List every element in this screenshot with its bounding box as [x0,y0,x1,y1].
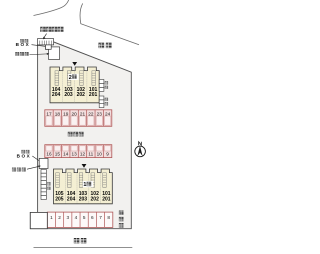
svg-text:5: 5 [83,215,86,220]
svg-text:24: 24 [105,111,111,116]
svg-text:18: 18 [55,111,61,116]
shed structure bottom-left [30,212,47,228]
svg-text:6: 6 [91,215,94,220]
svg-text:20: 20 [72,111,78,116]
svg-text:1: 1 [83,182,86,188]
label 宅配 (bldg2) [20,39,28,42]
svg-text:16: 16 [46,152,52,157]
storage 物置 bldg2 upper [99,80,108,92]
property boundary parcel [30,42,131,229]
svg-text:201: 201 [89,92,98,98]
svg-text:13: 13 [72,152,78,157]
svg-text:BOX: BOX [17,154,32,159]
svg-text:202: 202 [91,196,100,202]
building 1-tou [54,169,113,204]
arrow to bicycle shed (bldg2) [30,53,50,55]
svg-text:21: 21 [80,111,86,116]
svg-text:22: 22 [88,111,94,116]
bicycle shed structure (bldg2) [49,47,60,60]
svg-text:205: 205 [55,196,64,202]
svg-text:11: 11 [88,152,93,157]
svg-text:10: 10 [97,152,103,157]
svg-text:3: 3 [66,215,69,220]
road line bottom [34,247,133,249]
label 駐車場 middle [68,132,84,137]
label 宅配 (bldg1) [21,150,29,153]
svg-text:201: 201 [102,196,111,202]
svg-text:17: 17 [46,111,52,116]
arrow to garbage box [43,34,47,40]
takuhai BOX structure (bldg1) [39,158,48,168]
svg-text:203: 203 [79,196,88,202]
parking row 1-8 [47,212,113,227]
parking row 17-24 [45,110,112,127]
road curve top-center and city-road edge [80,3,139,44]
takuhai BOX structure (bldg2) [46,45,52,49]
label 駐輪場 (bldg2) [15,52,28,56]
svg-text:12: 12 [80,152,86,157]
svg-text:BOX: BOX [16,42,31,47]
arrow BOX to box (bldg1) [32,156,39,161]
building 2-tou [50,67,99,103]
label 駐輪場 (bldg1) [12,168,26,172]
parking row 16-9 [45,145,112,158]
svg-text:7: 7 [99,215,102,220]
svg-text:2: 2 [69,75,72,81]
svg-text:202: 202 [77,92,86,98]
svg-text:15: 15 [55,152,61,157]
svg-text:2: 2 [58,215,61,220]
svg-text:203: 203 [64,92,73,98]
svg-text:9: 9 [106,152,109,157]
svg-text:204: 204 [52,92,61,98]
arrow bicycle (bldg1) [27,165,41,169]
north compass [135,142,146,157]
svg-text:23: 23 [97,111,103,116]
label 駐車場 right vertical [119,211,124,228]
svg-text:204: 204 [67,196,76,202]
svg-text:19: 19 [63,111,69,116]
garbage box (gomi) [38,39,54,45]
label 市道 bottom [74,238,87,243]
road curve top-left [34,0,69,16]
storage 物置 bldg1 left [41,169,51,199]
label 市道 top-right [98,43,111,48]
arrow BOX to box (bldg2) [32,45,46,47]
storage 物置 bldg2 lower [99,96,108,108]
label ゴミ置場 [40,27,63,32]
svg-text:1: 1 [50,215,53,220]
svg-text:8: 8 [107,215,110,220]
svg-text:14: 14 [63,152,69,157]
svg-text:4: 4 [75,215,78,220]
